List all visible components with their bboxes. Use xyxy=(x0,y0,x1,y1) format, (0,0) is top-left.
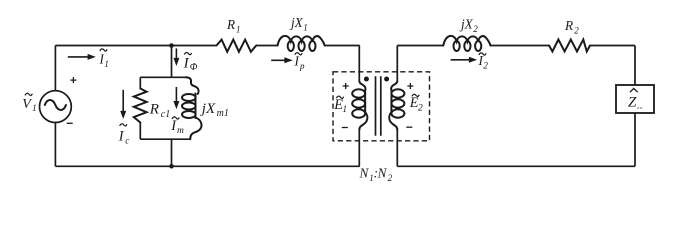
svg-text:2: 2 xyxy=(473,24,478,34)
svg-text:2: 2 xyxy=(418,103,423,113)
transformer dashed box xyxy=(333,72,430,141)
wire: parallel group top xyxy=(140,76,185,78)
wire: primary vertical into transformer xyxy=(358,46,360,82)
wire: primary top horizontal left of R1 xyxy=(55,45,216,47)
wire: shunt feed top xyxy=(171,46,173,78)
inductor jX1 xyxy=(278,36,325,51)
svg-text:c1: c1 xyxy=(161,109,170,120)
wire: secondary top horizontal between jX2 and R2 xyxy=(491,45,550,47)
resistor R1 xyxy=(217,40,257,52)
arrow I2 xyxy=(451,59,470,61)
wire: right vertical upper to load xyxy=(634,46,636,86)
wire: secondary top horizontal left of jX2 xyxy=(397,45,443,47)
transformer primary winding E1 xyxy=(352,81,367,130)
svg-text:N: N xyxy=(377,165,388,180)
wire: primary top horizontal right of jX1 xyxy=(325,45,360,47)
label E2 with plus minus xyxy=(407,83,413,89)
svg-text:R: R xyxy=(226,17,235,32)
svg-text:2: 2 xyxy=(483,61,488,71)
svg-text:2: 2 xyxy=(388,173,393,183)
wire: shunt feed bottom xyxy=(171,139,173,166)
arrow I-phi xyxy=(175,48,177,58)
svg-text:I: I xyxy=(183,55,190,71)
svg-text:jX: jX xyxy=(200,101,216,117)
wire: secondary winding bottom exit xyxy=(396,130,398,166)
wire: primary left vertical lower xyxy=(54,123,56,167)
svg-text:R: R xyxy=(149,101,159,117)
svg-text:1: 1 xyxy=(342,105,347,115)
arrow Ic xyxy=(122,90,124,112)
source minus sign xyxy=(67,122,73,124)
transformer polarity dot left xyxy=(364,77,369,82)
svg-text:m: m xyxy=(177,126,184,136)
svg-text:R: R xyxy=(564,18,573,33)
svg-text:1: 1 xyxy=(32,104,37,114)
svg-text:V: V xyxy=(22,97,32,112)
wire: parallel group bottom xyxy=(140,138,190,140)
svg-text:c: c xyxy=(125,136,130,146)
svg-text:1: 1 xyxy=(236,24,241,34)
wire: primary winding bottom exit xyxy=(358,130,360,166)
wire: primary top horizontal between R1 and jX1 xyxy=(256,45,277,47)
wire: secondary vertical from winding to top xyxy=(396,46,398,82)
source V1 circle xyxy=(40,91,72,123)
wire: right vertical lower from load xyxy=(634,113,636,166)
source V1 sine wave xyxy=(45,100,66,110)
arrow Ip xyxy=(271,59,285,61)
label E1 with plus minus xyxy=(343,83,349,89)
transformer core bars xyxy=(376,76,381,136)
svg-text:jX: jX xyxy=(459,16,474,31)
node: junction top of shunt branch xyxy=(169,43,174,48)
svg-text:I: I xyxy=(294,54,300,69)
wire: secondary top horizontal right of R2 xyxy=(590,45,635,47)
svg-text:1: 1 xyxy=(303,22,308,32)
svg-text:Z: Z xyxy=(628,95,637,111)
arrow I1 xyxy=(68,56,89,58)
source plus sign xyxy=(70,77,76,83)
svg-text:2: 2 xyxy=(574,25,579,35)
transformer secondary winding E2 xyxy=(389,81,404,130)
svg-text:1: 1 xyxy=(104,59,109,69)
resistor Rc1 xyxy=(139,77,141,88)
svg-text:m1: m1 xyxy=(217,108,229,119)
transformer polarity dot right xyxy=(384,77,389,82)
wire: primary bottom horizontal xyxy=(55,165,359,167)
svg-text:Φ: Φ xyxy=(190,62,198,73)
wire: primary left vertical upper xyxy=(54,46,56,91)
arrow Im xyxy=(175,87,177,101)
svg-text:jX: jX xyxy=(289,15,304,30)
svg-text:p: p xyxy=(299,61,305,71)
svg-text:I: I xyxy=(118,129,125,145)
resistor R2 xyxy=(549,40,590,52)
wire: secondary bottom horizontal xyxy=(397,165,635,167)
load impedance Z box xyxy=(616,85,654,113)
svg-text:N: N xyxy=(359,165,370,180)
inductor jXm1 xyxy=(182,77,201,139)
inductor jX2 xyxy=(443,36,490,51)
node: junction bottom of shunt branch xyxy=(169,164,174,169)
